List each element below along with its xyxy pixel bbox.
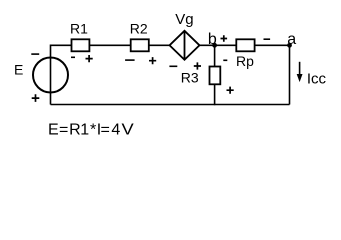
svg-text:b: b	[208, 31, 217, 48]
node b dot	[212, 43, 217, 48]
svg-text:E: E	[14, 62, 23, 78]
R1 minus	[71, 56, 75, 58]
wire top-left corner from E to R1	[51, 45, 72, 58]
Vg minus	[169, 65, 177, 67]
svg-text:R1: R1	[70, 21, 88, 37]
current arrow Icc	[299, 62, 301, 75]
wire R3 to bottom	[214, 84, 216, 105]
R2 plus	[149, 57, 156, 64]
wire E through source	[50, 58, 52, 105]
Rp minus right	[264, 38, 271, 40]
wire bottom	[51, 104, 290, 106]
R3 plus	[227, 87, 234, 94]
svg-text:E=R1*I=4V: E=R1*I=4V	[48, 122, 134, 139]
resistor R2	[131, 39, 149, 51]
svg-text:Icc: Icc	[307, 70, 327, 87]
wire node b down to R3	[214, 45, 216, 66]
R2 minus	[125, 59, 135, 61]
resistor R1	[72, 39, 90, 51]
node b plus	[221, 35, 228, 42]
R1 plus	[86, 55, 93, 62]
svg-text:Rp: Rp	[236, 53, 254, 69]
wire Vg to node b to Rp	[200, 44, 237, 46]
svg-text:a: a	[287, 31, 296, 48]
Vg plus	[194, 62, 201, 69]
dependent source Vg diamond	[170, 31, 200, 60]
voltage source E circle	[33, 58, 68, 93]
wire R1 to R2	[89, 44, 130, 46]
node b minus (left of Rp label)	[223, 59, 227, 61]
voltage source minus	[31, 53, 39, 55]
voltage source plus	[32, 94, 40, 102]
resistor Rp	[236, 39, 254, 51]
node a dot	[287, 43, 292, 48]
wire R2 to Vg	[149, 44, 170, 46]
svg-text:R2: R2	[130, 21, 148, 37]
svg-text:R3: R3	[181, 70, 199, 86]
resistor R3	[210, 67, 221, 85]
wire Rp to node a	[255, 44, 290, 46]
wire node a down right side	[289, 45, 291, 104]
svg-text:Vg: Vg	[175, 11, 193, 28]
